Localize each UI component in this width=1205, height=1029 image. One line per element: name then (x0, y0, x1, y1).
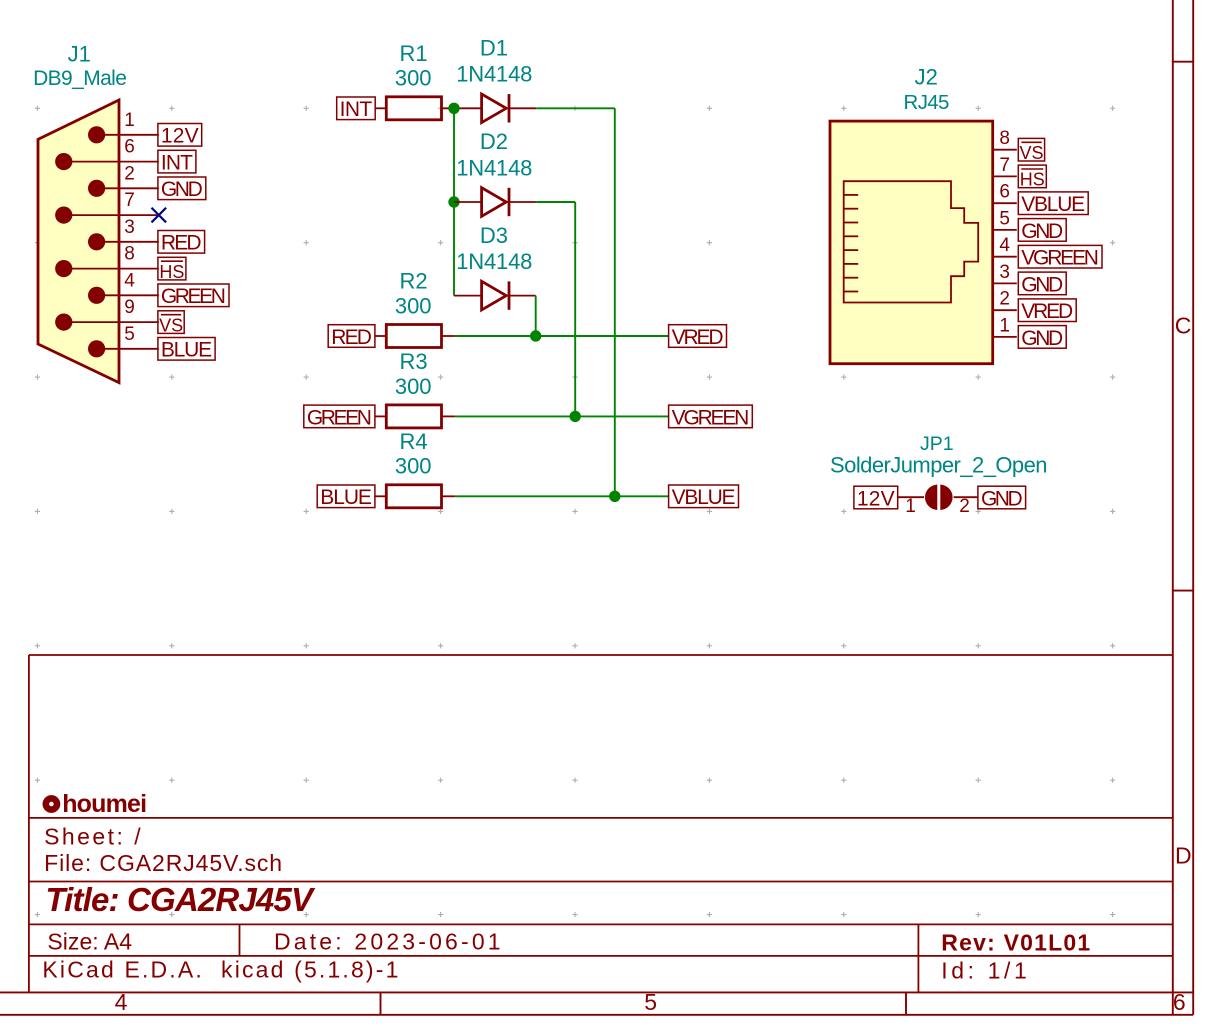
global label 12V (158, 124, 202, 148)
svg-text:KiCad E.D.A. kicad (5.1.8)-1: KiCad E.D.A. kicad (5.1.8)-1 (42, 957, 398, 983)
svg-text:300: 300 (395, 454, 432, 479)
global label GND at JP1 (978, 486, 1026, 510)
svg-text:houmei: houmei (62, 790, 147, 818)
svg-text:GND: GND (1021, 273, 1063, 296)
wire to D2 anode (454, 201, 482, 203)
global label HS (1018, 165, 1046, 190)
wire D1 to vertical net VBLUE (536, 107, 615, 109)
jumper JP1 pads (926, 486, 951, 509)
J1 pin 4 (88, 270, 159, 304)
svg-text:R1: R1 (400, 41, 428, 66)
wire D2 cathode stub (509, 201, 536, 203)
svg-text:6: 6 (1173, 989, 1186, 1015)
J1 pin 3 (88, 217, 159, 251)
wire R4 right stub (442, 495, 455, 497)
svg-text:VBLUE: VBLUE (1021, 193, 1085, 216)
svg-text:D2: D2 (480, 129, 508, 154)
J2 pin 6 (993, 182, 1017, 204)
connector J2 jack contacts (844, 195, 859, 292)
svg-text:8: 8 (124, 244, 135, 265)
wire R3 right stub (442, 415, 455, 417)
grid dots (decorative) (35, 106, 1115, 918)
connector J2 RJ45 body (830, 121, 993, 364)
wire R2 right stub (442, 335, 455, 337)
svg-text:RED: RED (161, 232, 202, 255)
svg-text:9: 9 (124, 297, 135, 318)
J2 pin 4 (993, 235, 1017, 257)
global label GND (1018, 272, 1066, 296)
global label GND (1018, 326, 1066, 350)
svg-text:5: 5 (124, 324, 135, 345)
global label RED (328, 325, 375, 349)
svg-text:5: 5 (999, 208, 1010, 229)
svg-text:1N4148: 1N4148 (456, 155, 532, 180)
global label BLUE (317, 485, 375, 509)
svg-text:VBLUE: VBLUE (672, 486, 736, 509)
wire D3 cathode stub (509, 295, 536, 297)
resistor R3 body (386, 405, 441, 428)
global label INT (337, 97, 376, 121)
company logo houmei (43, 790, 148, 818)
svg-text:3: 3 (999, 262, 1010, 283)
svg-text:6: 6 (999, 182, 1010, 203)
global label GND (158, 177, 206, 201)
svg-text:GND: GND (1021, 220, 1063, 243)
J1 pin 1 (88, 110, 159, 144)
svg-text:R4: R4 (400, 429, 428, 454)
wire vertical to VRED row (535, 296, 537, 336)
svg-text:SolderJumper_2_Open: SolderJumper_2_Open (830, 453, 1048, 478)
wire R4 to VBLUE (455, 495, 669, 497)
global label GND (1018, 219, 1066, 243)
wire R3 to VGREEN (455, 415, 669, 417)
J1 pin 6 (55, 137, 159, 171)
svg-text:2: 2 (124, 163, 135, 184)
wire R1 to D1 anode (442, 107, 482, 109)
wire BLUE label to R4 (375, 495, 386, 497)
global label VGREEN (1018, 245, 1102, 269)
svg-text:1N4148: 1N4148 (456, 62, 532, 87)
svg-text:HS: HS (159, 262, 184, 282)
global label GREEN (158, 284, 229, 308)
svg-text:J2: J2 (915, 65, 938, 90)
svg-text:1: 1 (124, 110, 135, 131)
svg-text:File: CGA2RJ45V.sch: File: CGA2RJ45V.sch (44, 850, 282, 876)
svg-text:VS: VS (1019, 143, 1043, 163)
J2 pin 7 (993, 155, 1017, 177)
svg-text:GREEN: GREEN (161, 285, 226, 308)
connector J1 DB9_Male body (38, 100, 119, 383)
svg-text:R2: R2 (400, 269, 428, 294)
svg-text:RJ45: RJ45 (904, 91, 950, 114)
svg-text:VS: VS (159, 315, 183, 335)
svg-text:4: 4 (124, 270, 135, 291)
J1 pin 8 (55, 244, 159, 278)
svg-text:2: 2 (999, 289, 1010, 310)
svg-text:300: 300 (395, 374, 432, 399)
svg-text:2: 2 (959, 496, 970, 517)
wire vertical R1 node down to D3 (453, 108, 455, 295)
global label VS (158, 311, 184, 336)
J1 pin 9 (55, 297, 159, 331)
global label RED (158, 231, 205, 255)
svg-text:VGREEN: VGREEN (672, 406, 750, 429)
wire vertical to VBLUE row (614, 108, 616, 496)
junction at VGREEN node (570, 411, 581, 422)
svg-text:12V: 12V (161, 125, 199, 148)
J2 pin 8 (993, 128, 1017, 150)
svg-text:R3: R3 (400, 349, 428, 374)
svg-text:INT: INT (161, 152, 193, 175)
svg-text:J1: J1 (68, 42, 91, 67)
no-connect on J1 pin 7 (152, 208, 167, 223)
svg-text:7: 7 (124, 190, 135, 211)
wire D1 cathode stub (509, 107, 536, 109)
global label VGREEN (669, 405, 753, 429)
global label VRED (669, 325, 727, 349)
svg-text:GND: GND (981, 487, 1023, 510)
svg-text:1N4148: 1N4148 (456, 249, 532, 274)
J1 pin 5 (88, 324, 159, 358)
svg-text:1: 1 (905, 496, 916, 517)
svg-text:RED: RED (331, 326, 372, 349)
diode D1 symbol (482, 94, 509, 123)
J1 pin 2 (88, 163, 159, 197)
svg-text:6: 6 (124, 137, 135, 158)
junction at D2 anode node (448, 196, 459, 207)
connector J2 jack outline (844, 181, 979, 302)
svg-text:1: 1 (999, 315, 1010, 336)
svg-text:D1: D1 (480, 36, 508, 61)
svg-text:INT: INT (340, 98, 373, 121)
resistor R4 body (386, 485, 441, 508)
wire JP1 pad 2 to GND label (954, 496, 978, 498)
svg-text:7: 7 (999, 155, 1010, 176)
svg-text:Size: A4: Size: A4 (47, 929, 132, 955)
J2 pin 1 (993, 315, 1017, 337)
svg-text:VRED: VRED (672, 326, 724, 349)
svg-text:BLUE: BLUE (161, 339, 212, 362)
svg-text:D: D (1175, 843, 1192, 869)
svg-text:3: 3 (124, 217, 135, 238)
svg-text:12V: 12V (857, 487, 895, 510)
diode D2 symbol (482, 188, 509, 217)
svg-text:D3: D3 (480, 223, 508, 248)
global label 12V at JP1 (854, 486, 898, 510)
svg-text:4: 4 (115, 989, 128, 1015)
wire RED label to R2 (375, 335, 386, 337)
svg-text:GND: GND (1021, 327, 1063, 350)
svg-text:300: 300 (395, 293, 432, 318)
wire D2 to vertical net VGREEN (536, 201, 575, 203)
svg-text:GND: GND (161, 178, 203, 201)
svg-text:GREEN: GREEN (307, 406, 372, 429)
svg-text:BLUE: BLUE (320, 486, 372, 509)
junction at R1/D1 node (448, 103, 459, 114)
resistor R1 body (386, 97, 441, 120)
global label VBLUE (1018, 192, 1088, 216)
svg-text:4: 4 (999, 235, 1010, 256)
wire 12V label to JP1 pad 1 (898, 496, 924, 498)
svg-text:Rev: V01L01: Rev: V01L01 (941, 930, 1090, 956)
svg-text:Title: CGA2RJ45V: Title: CGA2RJ45V (45, 881, 316, 918)
global label BLUE (158, 338, 215, 362)
svg-text:DB9_Male: DB9_Male (33, 67, 127, 90)
global label HS (158, 257, 186, 282)
global label INT (158, 150, 196, 174)
junction at VRED node (530, 330, 541, 341)
J2 pin 2 (993, 289, 1017, 311)
J1 pin 7 (55, 190, 159, 224)
svg-text:VGREEN: VGREEN (1021, 247, 1099, 270)
wire INT label to R1 (375, 107, 386, 109)
J2 pin 5 (993, 208, 1017, 230)
svg-text:300: 300 (395, 66, 432, 91)
svg-text:8: 8 (999, 128, 1010, 149)
wire vertical to VGREEN row (574, 202, 576, 416)
global label VBLUE (669, 485, 739, 509)
svg-text:5: 5 (644, 989, 657, 1015)
title block frame (29, 655, 1173, 992)
junction at VBLUE node (609, 491, 620, 502)
svg-text:HS: HS (1020, 170, 1045, 190)
global label GREEN (304, 405, 375, 429)
svg-text:VRED: VRED (1021, 300, 1073, 323)
wire GREEN label to R3 (375, 415, 386, 417)
wire R2 to VRED (455, 335, 669, 337)
diode D3 symbol (482, 281, 509, 310)
global label VS (1018, 138, 1044, 163)
wire to D3 anode (454, 295, 482, 297)
J2 pin 3 (993, 262, 1017, 284)
svg-text:Sheet: /: Sheet: / (44, 824, 141, 850)
resistor R2 body (386, 325, 441, 348)
global label VRED (1018, 299, 1076, 323)
svg-text:C: C (1175, 313, 1192, 339)
